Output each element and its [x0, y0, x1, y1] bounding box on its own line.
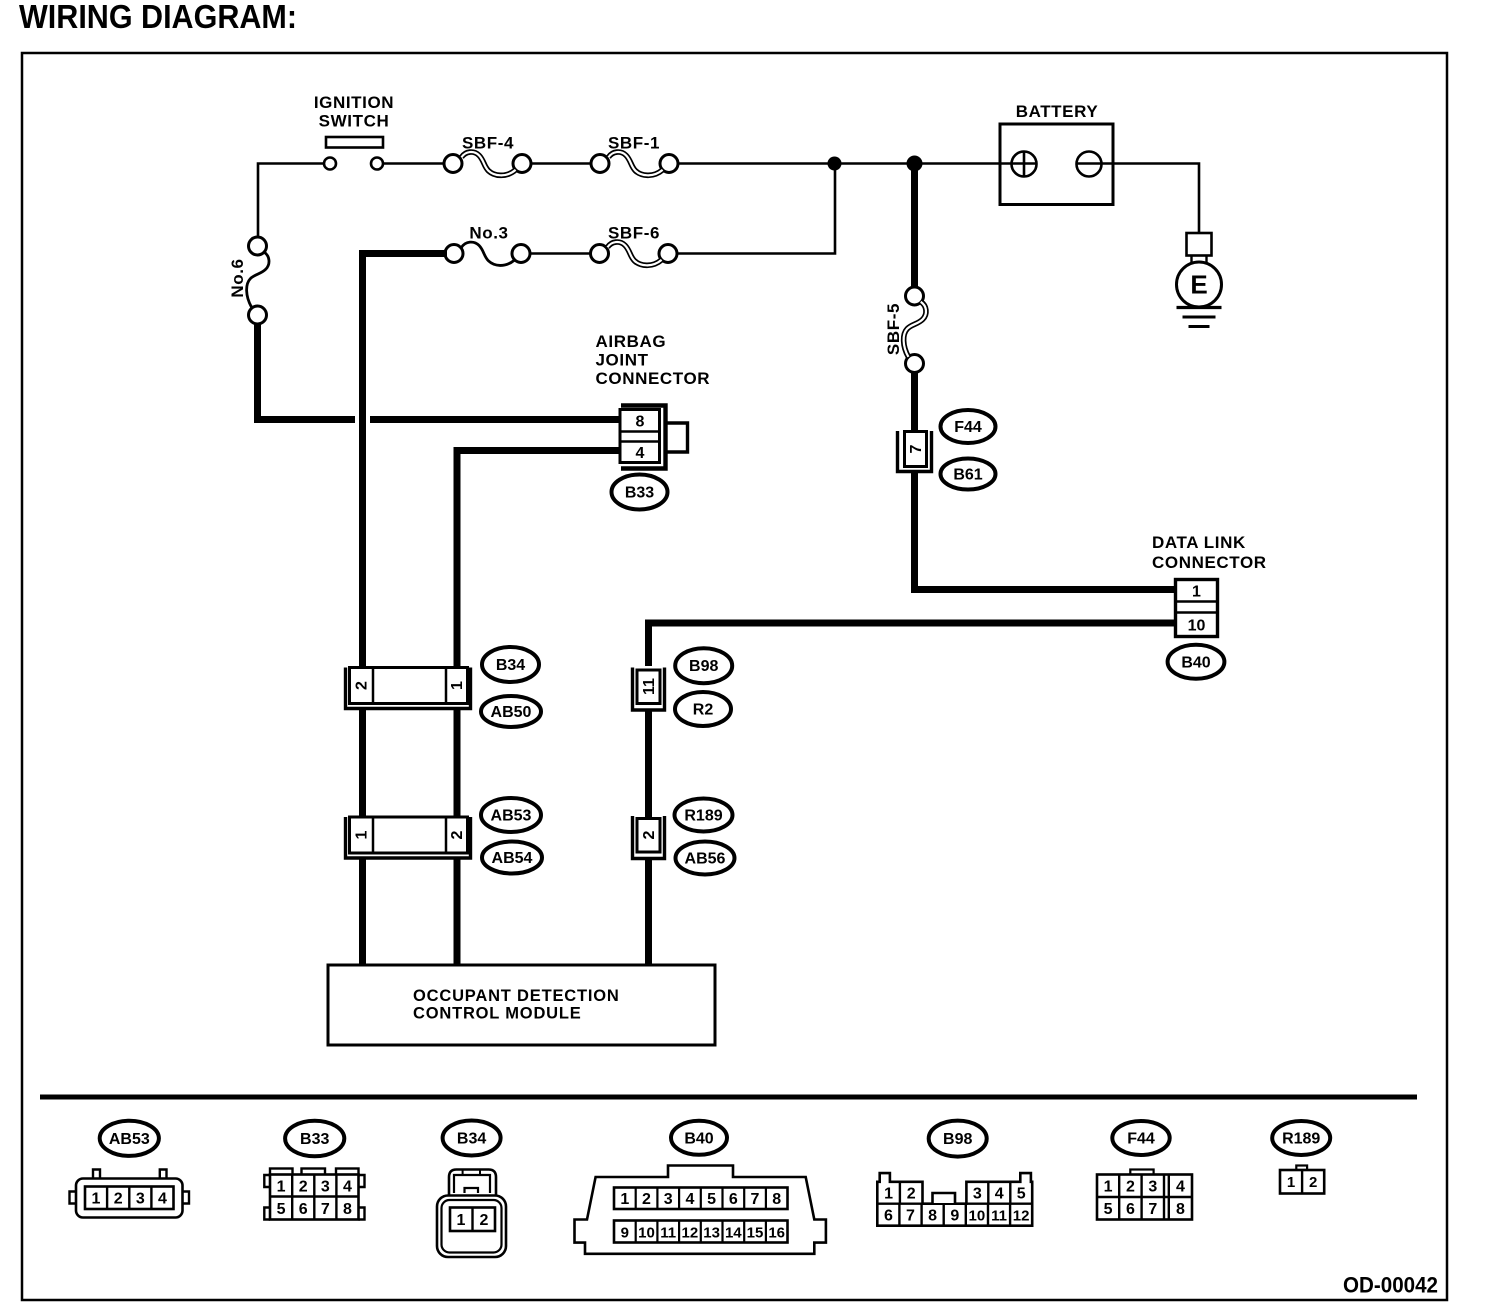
svg-text:2: 2 — [1309, 1174, 1317, 1191]
svg-text:10: 10 — [1188, 618, 1206, 635]
svg-text:F44: F44 — [1127, 1131, 1155, 1148]
svg-text:OCCUPANT DETECTION: OCCUPANT DETECTION — [413, 987, 620, 1005]
svg-text:8: 8 — [343, 1201, 352, 1218]
svg-text:2: 2 — [1126, 1179, 1135, 1196]
oval label F44 — [941, 410, 996, 443]
svg-text:11: 11 — [660, 1225, 676, 1242]
data link connector labels — [1152, 533, 1267, 572]
wire from data link pin 10 left and down to connector pin 11 — [649, 623, 1176, 666]
svg-text:2: 2 — [354, 681, 371, 690]
svg-text:2: 2 — [641, 830, 658, 839]
svg-text:9: 9 — [950, 1208, 959, 1225]
fuse SBF-6 — [591, 224, 678, 266]
svg-text:CONTROL MODULE: CONTROL MODULE — [413, 1005, 582, 1023]
oval label B98 (pinout) — [929, 1121, 987, 1157]
oval label AB53 — [481, 798, 541, 832]
svg-text:6: 6 — [884, 1208, 893, 1225]
svg-text:1: 1 — [1104, 1179, 1113, 1196]
ignition switch SW1 — [314, 93, 394, 170]
wire from ignition switch left down to fuse No.6 — [258, 164, 324, 238]
wire from junction node B down to fuse SBF-5 — [911, 164, 918, 289]
wire from battery minus to ground E — [1077, 164, 1200, 234]
connector B34/AB50 pin 1 — [449, 681, 466, 690]
connector B98 pinout body — [877, 1173, 1032, 1226]
svg-text:4: 4 — [995, 1186, 1004, 1203]
svg-text:1: 1 — [1287, 1174, 1295, 1191]
svg-text:WIRING DIAGRAM:: WIRING DIAGRAM: — [19, 0, 297, 35]
connector B33 pinout body — [264, 1169, 364, 1220]
airbag joint connector pin 4 — [636, 445, 645, 462]
B40 pinout pin numbers 1-16 — [620, 1191, 785, 1242]
svg-text:R2: R2 — [693, 702, 714, 719]
svg-text:6: 6 — [729, 1191, 738, 1208]
svg-text:2: 2 — [449, 830, 466, 839]
svg-text:2: 2 — [299, 1179, 308, 1196]
airbag joint connector B33 body — [620, 406, 688, 469]
oval label R189 (pinout) — [1272, 1121, 1330, 1155]
svg-text:16: 16 — [768, 1225, 785, 1242]
oval label B34 — [482, 647, 539, 682]
svg-text:12: 12 — [682, 1225, 699, 1242]
svg-text:AIRBAG: AIRBAG — [596, 332, 667, 351]
fuse SBF-1 — [591, 134, 678, 176]
svg-text:JOINT: JOINT — [596, 351, 649, 370]
data link connector pin 1 — [1192, 584, 1201, 601]
svg-text:5: 5 — [1104, 1201, 1113, 1218]
svg-text:7: 7 — [906, 1208, 915, 1225]
svg-text:10: 10 — [969, 1208, 986, 1225]
airbag joint connector pin 8 — [636, 414, 645, 431]
fuse SBF-5 — [884, 287, 926, 373]
svg-text:AB54: AB54 — [492, 850, 533, 867]
svg-text:8: 8 — [1176, 1201, 1185, 1218]
wire from AB53 pin 1 down to module — [359, 857, 366, 966]
wire between No.3 and SBF-6 — [530, 252, 591, 255]
svg-text:1: 1 — [457, 1212, 466, 1229]
svg-text:1: 1 — [1192, 584, 1201, 601]
svg-text:11: 11 — [991, 1208, 1007, 1225]
svg-text:2: 2 — [114, 1191, 123, 1208]
svg-text:6: 6 — [1126, 1201, 1135, 1218]
wire from ignition switch right to fuse SBF-4 — [383, 162, 444, 165]
svg-text:4: 4 — [685, 1191, 694, 1208]
svg-text:15: 15 — [747, 1225, 764, 1242]
svg-text:1: 1 — [884, 1186, 893, 1203]
svg-text:8: 8 — [636, 414, 645, 431]
connector AB53/AB54 body — [346, 817, 471, 858]
occupant detection control module — [328, 965, 715, 1045]
svg-text:SWITCH: SWITCH — [319, 112, 390, 131]
svg-text:2: 2 — [642, 1191, 651, 1208]
oval label B40 — [1168, 645, 1225, 679]
svg-text:5: 5 — [707, 1191, 716, 1208]
svg-text:DATA LINK: DATA LINK — [1152, 533, 1246, 552]
oval label B61 — [941, 459, 996, 490]
svg-text:4: 4 — [636, 445, 645, 462]
wire from B34 pin 1 down to AB53 pin 2 — [454, 710, 461, 818]
svg-text:B34: B34 — [496, 657, 525, 674]
wire from SBF-6 right up to junction node A — [677, 164, 835, 254]
oval label R189 — [675, 799, 733, 832]
svg-text:3: 3 — [973, 1186, 982, 1203]
connector F44 pinout body — [1097, 1170, 1192, 1220]
connector AB53/AB54 pin 1 — [354, 830, 371, 839]
svg-text:E: E — [1190, 270, 1207, 300]
svg-text:CONNECTOR: CONNECTOR — [596, 369, 711, 388]
svg-text:7: 7 — [751, 1191, 760, 1208]
B98 pinout pin numbers 1-12 — [884, 1186, 1029, 1225]
svg-text:BATTERY: BATTERY — [1016, 102, 1099, 121]
svg-text:3: 3 — [1148, 1179, 1157, 1196]
svg-text:8: 8 — [928, 1208, 937, 1225]
ground E symbol — [1177, 233, 1222, 327]
svg-text:10: 10 — [638, 1225, 655, 1242]
svg-text:B40: B40 — [684, 1130, 713, 1147]
svg-text:AB53: AB53 — [491, 808, 532, 825]
oval label AB53 (pinout) — [100, 1121, 159, 1156]
connector AB53/AB54 pin 2 — [449, 830, 466, 839]
oval label R2 — [675, 692, 731, 726]
separator line — [40, 1095, 1417, 1100]
connector B34 pinout body — [437, 1170, 506, 1258]
junction node B (SBF-5 branch) — [907, 156, 923, 172]
data link connector body — [1176, 580, 1218, 637]
junction node A (SBF-6 branch) — [828, 157, 842, 171]
title WIRING DIAGRAM — [19, 0, 297, 35]
svg-text:3: 3 — [321, 1179, 330, 1196]
svg-text:1: 1 — [92, 1191, 101, 1208]
B33 pinout pin numbers 1-8 — [277, 1179, 352, 1219]
svg-text:AB53: AB53 — [109, 1131, 150, 1148]
svg-text:No.3: No.3 — [469, 224, 508, 243]
svg-text:R189: R189 — [1282, 1131, 1320, 1148]
oval label B33 — [612, 475, 668, 510]
wire between SBF-4 and SBF-1 — [531, 162, 591, 165]
AB53 pinout pin numbers 1 2 3 4 — [92, 1191, 167, 1208]
wire from airbag joint connector pin 4 left and down to connector B34 pin 1 — [457, 451, 620, 667]
svg-text:7: 7 — [321, 1201, 330, 1218]
svg-text:12: 12 — [1013, 1208, 1030, 1225]
svg-text:3: 3 — [136, 1191, 145, 1208]
svg-text:5: 5 — [1017, 1186, 1026, 1203]
svg-text:B98: B98 — [943, 1131, 972, 1148]
oval label AB50 — [481, 696, 541, 727]
svg-text:2: 2 — [907, 1186, 916, 1203]
svg-text:B98: B98 — [689, 658, 718, 675]
R189 pinout pin numbers 1 2 — [1287, 1174, 1318, 1191]
svg-text:AB56: AB56 — [685, 851, 726, 868]
oval label AB56 — [676, 842, 735, 875]
connector B34/AB50 pin 2 — [354, 681, 371, 690]
wire No.6 fuse down and right to airbag joint connector pin 8 (left part before crossover) — [258, 323, 356, 420]
connector R189 pinout body — [1280, 1166, 1324, 1194]
wire from B34 pin 2 down to AB53 pin 1 — [359, 710, 366, 818]
svg-text:No.6: No.6 — [228, 258, 247, 297]
connector B34/AB50 body — [346, 668, 471, 709]
svg-text:8: 8 — [772, 1191, 781, 1208]
svg-text:4: 4 — [1176, 1179, 1185, 1196]
svg-text:AB50: AB50 — [491, 704, 532, 721]
svg-text:9: 9 — [621, 1225, 629, 1242]
svg-text:1: 1 — [449, 681, 466, 690]
fuse No.6 — [228, 237, 269, 324]
connector AB53 pinout body — [70, 1170, 190, 1218]
svg-text:13: 13 — [703, 1225, 720, 1242]
fuse SBF-4 — [444, 134, 531, 176]
svg-text:7: 7 — [908, 444, 925, 453]
svg-text:6: 6 — [299, 1201, 308, 1218]
connector pin box 2 (R189/AB56) — [633, 816, 665, 859]
svg-text:R189: R189 — [684, 808, 722, 825]
airbag joint connector labels — [596, 332, 711, 388]
svg-text:14: 14 — [725, 1225, 742, 1242]
svg-text:5: 5 — [277, 1201, 286, 1218]
svg-text:1: 1 — [354, 830, 371, 839]
wire from pin 11 down to pin 2 (R189/AB56) — [645, 709, 652, 818]
reference code OD-00042 — [1343, 1273, 1438, 1298]
oval label B34 (pinout) — [443, 1121, 501, 1156]
oval label AB54 — [482, 842, 542, 874]
connector pin box 7 (F44/B61) — [898, 431, 932, 472]
oval label B98 — [675, 648, 732, 683]
svg-text:2: 2 — [480, 1212, 489, 1229]
connector pin box 11 (B98/R2) — [633, 668, 665, 711]
svg-text:1: 1 — [277, 1179, 286, 1196]
svg-text:B40: B40 — [1181, 654, 1210, 671]
B34 pinout pin numbers 1 2 — [457, 1212, 489, 1229]
svg-text:1: 1 — [620, 1191, 629, 1208]
svg-text:B61: B61 — [953, 467, 982, 484]
wire from pin 7 down then right to data link connector pin 1 — [915, 473, 1176, 590]
wire No.3 branch: corner and vertical down to connector B34 pin 2 — [363, 254, 448, 667]
wire from SBF-5 down to connector pin 7 — [911, 372, 918, 432]
wire from SBF-1 to battery — [678, 162, 1037, 165]
wire from pin 2 down to module — [645, 857, 652, 966]
wire continuing to airbag joint connector pin 8 (right part after crossover) — [370, 416, 621, 423]
svg-text:4: 4 — [343, 1179, 352, 1196]
svg-text:4: 4 — [158, 1191, 167, 1208]
F44 pinout pin numbers 1-8 — [1104, 1179, 1185, 1219]
connector B40 pinout body — [575, 1166, 826, 1254]
oval label B40 (pinout) — [671, 1121, 727, 1155]
svg-text:OD-00042: OD-00042 — [1343, 1273, 1438, 1298]
fuse No.3 — [445, 224, 530, 266]
svg-text:B33: B33 — [300, 1131, 329, 1148]
battery — [1000, 102, 1113, 205]
svg-text:7: 7 — [1148, 1201, 1157, 1218]
oval label F44 (pinout) — [1112, 1121, 1169, 1155]
oval label B33 (pinout) — [285, 1121, 344, 1157]
svg-text:F44: F44 — [954, 419, 982, 436]
svg-text:B34: B34 — [457, 1131, 486, 1148]
data link connector pin 10 — [1188, 618, 1206, 635]
svg-text:B33: B33 — [625, 485, 654, 502]
svg-text:11: 11 — [641, 678, 658, 695]
svg-text:SBF-5: SBF-5 — [884, 303, 903, 355]
svg-text:3: 3 — [664, 1191, 673, 1208]
wire from AB53 pin 2 down to module — [454, 857, 461, 966]
svg-text:CONNECTOR: CONNECTOR — [1152, 553, 1267, 572]
svg-text:IGNITION: IGNITION — [314, 93, 394, 112]
